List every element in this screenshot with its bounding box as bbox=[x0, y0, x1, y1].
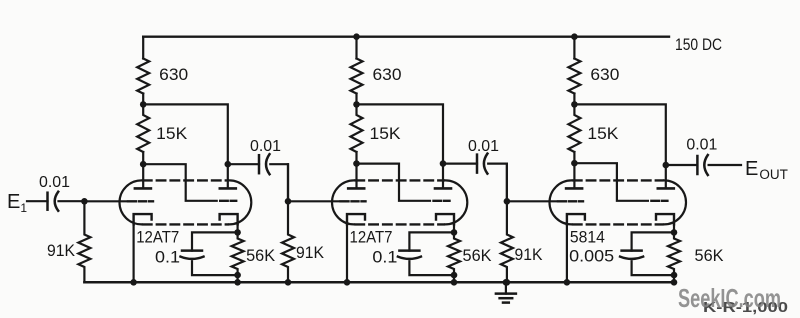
tube left-triode cathode stage 2 bbox=[347, 214, 365, 224]
tube left-triode grid dashes stage 3 bbox=[558, 200, 583, 202]
node: cathode/56K/cap top junction stage 3 bbox=[671, 229, 678, 236]
wire: node B to right-triode grid stage 3 bbox=[574, 163, 648, 201]
resistor 630 stage 3 bbox=[568, 59, 580, 94]
svg-text:5814: 5814 bbox=[570, 228, 605, 247]
resistor 15K stage 1 bbox=[137, 104, 149, 152]
wire: 56K bottom to ground rail stage 2 bbox=[453, 275, 455, 282]
resistor 91K stage 3 bbox=[501, 201, 513, 282]
resistor 91K stage 1 bbox=[78, 201, 90, 282]
wire: input cap to grid node bbox=[59, 200, 85, 202]
wire: cathode bypass cap bottom branch stage 1 bbox=[192, 261, 238, 275]
node: left cathode rail junction stage 2 bbox=[344, 279, 351, 286]
node: coupling takeoff junction stage 2 bbox=[440, 160, 447, 167]
svg-text:91K: 91K bbox=[47, 241, 76, 260]
wire: 0.01 cap to next grid node stage 2 bbox=[488, 164, 507, 202]
node: 56K/cap bottom junction stage 1 bbox=[234, 272, 241, 279]
wire: node B to right-triode grid stage 1 bbox=[143, 164, 217, 201]
svg-text:15K: 15K bbox=[370, 124, 402, 143]
node: 56K rail junction stage 3 bbox=[671, 279, 678, 286]
node A stage 3 (630/15K/plate junction) bbox=[571, 101, 578, 108]
wire: node B to left-triode plate stage 2 bbox=[355, 164, 357, 189]
tube left-triode grid dashes stage 2 bbox=[341, 200, 366, 202]
capacitor 0.01 coupling stage 3 bbox=[697, 155, 707, 175]
svg-text:630: 630 bbox=[373, 65, 402, 84]
wire: grid node to left-triode grid stage 2 bbox=[288, 200, 339, 202]
vacuum tube 12AT7 stage 2 envelope bbox=[332, 180, 467, 224]
node: 91K rail junction stage 3 bbox=[504, 279, 511, 286]
tube right-triode cathode stage 3 bbox=[656, 214, 674, 224]
wire: node A to right-triode plate stage 3 bbox=[574, 104, 665, 188]
svg-text:56K: 56K bbox=[246, 246, 276, 265]
resistor 630 stage 1 bbox=[137, 59, 149, 94]
node: coupling takeoff junction stage 3 bbox=[663, 162, 670, 169]
svg-text:56K: 56K bbox=[695, 246, 725, 265]
resistor 56K stage 2 bbox=[448, 232, 460, 275]
node B stage 3 (15K/left plate/right grid) bbox=[571, 160, 578, 167]
wire: 630 to node A stage 1 bbox=[142, 94, 144, 105]
resistor 15K stage 3 bbox=[568, 104, 580, 152]
wire: right grid dashes stage 1 bbox=[220, 200, 236, 202]
wire: 0.01 cap to next grid node stage 1 bbox=[270, 164, 288, 201]
node: left cathode rail junction stage 1 bbox=[130, 279, 137, 286]
tube left-triode plate stage 3 bbox=[566, 187, 582, 190]
svg-text:630: 630 bbox=[159, 65, 188, 84]
wire: 630 to node A stage 2 bbox=[355, 94, 357, 105]
wire: 15K to node B stage 1 bbox=[142, 152, 144, 164]
resistor 56K stage 1 bbox=[232, 232, 244, 275]
resistor 91K stage 2 bbox=[282, 201, 294, 282]
wire: rail drop to 630 stage 1 bbox=[142, 37, 144, 59]
wire: left cathode to ground rail stage 1 bbox=[133, 224, 135, 282]
capacitor 0.1 cathode bypass stage 1 bbox=[181, 251, 204, 259]
svg-text:12AT7: 12AT7 bbox=[136, 228, 179, 247]
tube left-triode grid dashes stage 1 bbox=[128, 200, 153, 202]
vacuum tube 12AT7 stage 1 envelope bbox=[120, 180, 252, 224]
svg-text:0.01: 0.01 bbox=[468, 138, 499, 155]
tube left-triode plate stage 2 bbox=[348, 187, 364, 190]
node: ground rail junction bbox=[503, 279, 510, 286]
svg-text:15K: 15K bbox=[156, 124, 188, 143]
node: 56K/cap bottom junction stage 3 bbox=[671, 272, 678, 279]
tube left-triode cathode stage 3 bbox=[567, 214, 585, 224]
tube right-triode cathode stage 2 bbox=[436, 214, 454, 224]
node B stage 2 (15K/left plate/right grid) bbox=[353, 160, 360, 167]
node: left cathode rail junction stage 3 bbox=[564, 279, 571, 286]
wire: input lead bbox=[27, 200, 48, 202]
svg-text:E1: E1 bbox=[7, 191, 27, 215]
wire: left cathode to ground rail stage 3 bbox=[566, 224, 568, 282]
wire: 630 to node A stage 3 bbox=[573, 94, 575, 105]
svg-text:0.01: 0.01 bbox=[250, 138, 281, 155]
svg-text:0.1: 0.1 bbox=[372, 248, 397, 267]
svg-text:56K: 56K bbox=[463, 246, 493, 265]
node: 56K rail junction stage 2 bbox=[451, 279, 458, 286]
wire: cathode bypass cap top branch stage 2 bbox=[409, 232, 454, 250]
capacitor 0.005 cathode bypass stage 3 bbox=[620, 251, 643, 259]
resistor 56K stage 3 bbox=[668, 232, 680, 275]
wire: 56K bottom to ground rail stage 1 bbox=[237, 275, 239, 282]
svg-text:91K: 91K bbox=[296, 243, 325, 262]
capacitor 0.01 coupling stage 1 bbox=[259, 154, 270, 174]
wire: node B to left-triode plate stage 3 bbox=[573, 163, 575, 188]
svg-text:150 DC: 150 DC bbox=[675, 35, 722, 54]
node: 56K/cap bottom junction stage 2 bbox=[451, 272, 458, 279]
wire: node A to right-triode plate stage 1 bbox=[143, 104, 228, 188]
wire: grid node to left-triode grid stage 3 bbox=[507, 200, 556, 202]
svg-text:SeekIC.com: SeekIC.com bbox=[678, 283, 781, 313]
wire: cathode bypass cap bottom branch stage 2 bbox=[409, 261, 454, 275]
wire: grid node to left-triode grid stage 1 bbox=[84, 200, 126, 202]
wire: stage1 coupling corner down to stage2 grid node bbox=[287, 164, 289, 201]
svg-text:15K: 15K bbox=[587, 124, 619, 143]
svg-text:0.005: 0.005 bbox=[569, 247, 614, 266]
capacitor 0.01 coupling stage 2 bbox=[477, 154, 487, 174]
tube right-triode plate stage 1 bbox=[220, 187, 236, 190]
node B stage 1 (15K/left plate/right grid) bbox=[140, 161, 147, 168]
wire: coupling takeoff to 0.01 cap stage 2 bbox=[443, 163, 477, 165]
node: grid junction stage 2 bbox=[285, 198, 292, 205]
node: rail junction stage 3 bbox=[571, 33, 578, 40]
wire: left cathode to ground rail stage 2 bbox=[346, 224, 348, 282]
svg-text:12AT7: 12AT7 bbox=[350, 228, 393, 247]
node: cathode/56K/cap top junction stage 2 bbox=[451, 229, 458, 236]
node: 91K rail junction stage 2 bbox=[285, 279, 292, 286]
tube left-triode plate stage 1 bbox=[135, 187, 151, 190]
wire: bottom ground rail bbox=[84, 281, 674, 284]
wire: cathode bypass cap bottom branch stage 3 bbox=[632, 261, 674, 275]
node: cathode/56K/cap top junction stage 1 bbox=[234, 229, 241, 236]
node: rail junction stage 2 bbox=[353, 33, 360, 40]
node: grid junction stage 3 bbox=[504, 198, 511, 205]
wire: coupling takeoff to 0.01 cap stage 3 bbox=[666, 164, 698, 166]
wire: stage2 coupling corner down to stage3 grid node bbox=[506, 164, 508, 202]
wire: cathode bypass cap top branch stage 1 bbox=[192, 232, 238, 250]
svg-text:0.1: 0.1 bbox=[155, 248, 180, 267]
svg-text:EOUT: EOUT bbox=[745, 158, 788, 182]
capacitor 0.1 cathode bypass stage 2 bbox=[398, 251, 421, 259]
wire: rail drop to 630 stage 3 bbox=[573, 37, 575, 59]
wire: cathode bypass cap top branch stage 3 bbox=[632, 232, 674, 250]
capacitor 0.01 input coupling bbox=[48, 192, 59, 211]
wire: node A to right-triode plate stage 2 bbox=[357, 104, 444, 188]
wire: 56K bottom to ground rail stage 3 bbox=[673, 275, 675, 282]
vacuum tube 5814 stage 3 envelope bbox=[550, 180, 687, 224]
tube right-triode plate stage 2 bbox=[435, 187, 451, 190]
wire: node B to right-triode grid stage 2 bbox=[357, 164, 431, 201]
resistor 15K stage 2 bbox=[351, 104, 363, 152]
node: grid junction stage 1 bbox=[81, 198, 88, 205]
wire: 15K to node B stage 3 bbox=[573, 152, 575, 163]
svg-text:0.01: 0.01 bbox=[686, 137, 717, 154]
svg-text:91K: 91K bbox=[515, 245, 544, 264]
node: coupling takeoff junction stage 1 bbox=[225, 161, 232, 168]
svg-text:0.01: 0.01 bbox=[39, 174, 70, 191]
wire: right cathode lead stage 1 bbox=[237, 224, 239, 232]
wire: node B to left-triode plate stage 1 bbox=[142, 164, 144, 188]
wire: 15K to node B stage 2 bbox=[355, 152, 357, 164]
wire: right cathode lead stage 2 bbox=[453, 224, 455, 232]
wire: right grid dashes stage 3 bbox=[651, 200, 667, 202]
resistor 630 stage 2 bbox=[351, 59, 363, 94]
wire: right cathode lead stage 3 bbox=[673, 224, 675, 232]
tube right-triode plate stage 3 bbox=[658, 187, 674, 190]
wire: output cap to EOUT bbox=[709, 164, 741, 166]
tube right-triode cathode stage 1 bbox=[220, 214, 238, 224]
node A stage 2 (630/15K/plate junction) bbox=[353, 101, 360, 108]
svg-text:630: 630 bbox=[590, 65, 619, 84]
node A stage 1 (630/15K/plate junction) bbox=[140, 101, 147, 108]
wire: coupling takeoff to 0.01 cap stage 1 bbox=[228, 163, 259, 165]
ground bbox=[496, 282, 516, 302]
tube left-triode cathode stage 1 bbox=[134, 214, 152, 224]
wire: rail drop to 630 stage 2 bbox=[355, 37, 357, 59]
wire: 150 DC supply rail bbox=[143, 36, 669, 38]
node: 56K rail junction stage 1 bbox=[234, 279, 241, 286]
wire: right grid dashes stage 2 bbox=[434, 200, 450, 202]
